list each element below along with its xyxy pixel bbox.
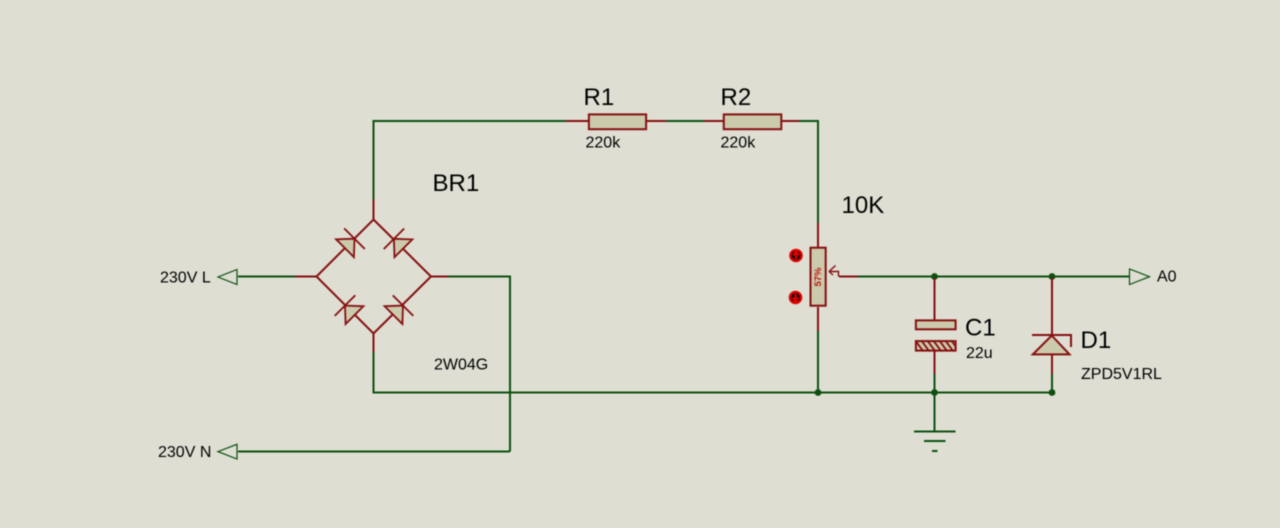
svg-text:220k: 220k <box>721 135 757 152</box>
svg-text:R2: R2 <box>721 84 752 111</box>
svg-text:220k: 220k <box>586 135 622 152</box>
svg-text:230V N: 230V N <box>158 444 211 461</box>
svg-text:22u: 22u <box>966 345 993 362</box>
svg-text:A0: A0 <box>1157 269 1177 286</box>
svg-text:2W04G: 2W04G <box>434 357 488 374</box>
svg-text:57%: 57% <box>813 267 824 287</box>
svg-text:D1: D1 <box>1081 327 1112 354</box>
svg-text:230V L: 230V L <box>160 270 211 287</box>
svg-text:ZPD5V1RL: ZPD5V1RL <box>1081 366 1162 383</box>
svg-text:R1: R1 <box>584 84 615 111</box>
svg-text:C1: C1 <box>965 315 996 342</box>
svg-text:BR1: BR1 <box>433 170 480 197</box>
svg-text:10K: 10K <box>842 192 885 219</box>
